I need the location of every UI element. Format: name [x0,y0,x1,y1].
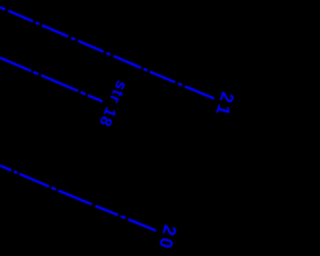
wire 21 dot [178,84,182,86]
wire 21 dash [114,56,142,68]
wire 21 dash [185,86,214,98]
wire str18 dash [0,58,31,71]
wire 21 dot [107,53,111,55]
wire 20 dash [96,206,119,215]
wire 21 dot [144,69,148,71]
wire 20 dash [0,166,12,171]
wire 21 dash [42,25,68,36]
wire 20 dash [59,191,92,205]
wire 21 dash [8,11,33,22]
wire 20 dot [121,216,126,218]
wire str18 dot [81,92,86,94]
wire 20 dash [128,219,156,230]
wire str18 dot [33,72,38,74]
wire 20 dot [14,171,18,173]
wire 21 dash [150,72,175,83]
wire 20 dash [20,174,50,187]
wire 21 dash [78,41,104,52]
wire str18 dash [88,95,103,101]
wire str18 dash [41,75,78,91]
wire 21 dot [36,23,40,25]
wire 21 dot [71,38,75,40]
wire 21 dot [0,7,5,9]
wire 20 dot [52,188,57,190]
